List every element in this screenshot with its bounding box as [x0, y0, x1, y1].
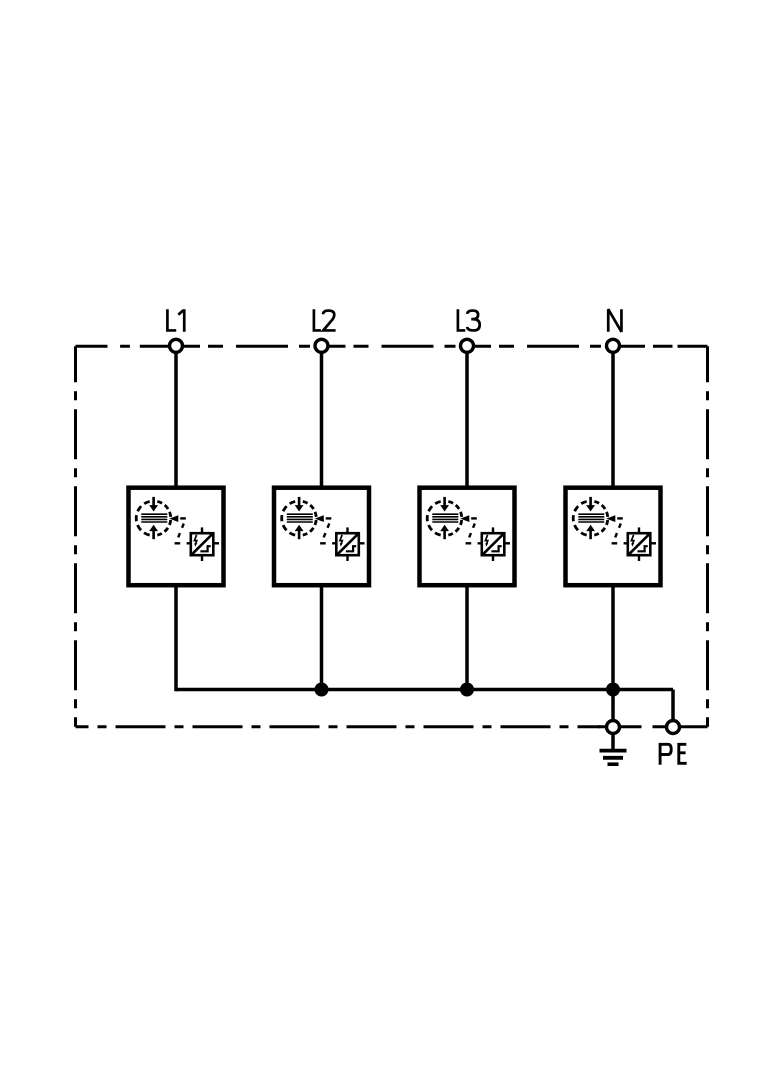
terminal L3 [461, 339, 474, 352]
varistor right pin tick [504, 542, 510, 544]
enclosure border bottom solid run PE terminal to corner [653, 725, 708, 728]
varistor top pin tick [492, 527, 494, 533]
varistor top pin tick [638, 527, 640, 533]
spark gap top arrow [440, 497, 449, 512]
spark gap electrode stack [141, 514, 167, 522]
spark gap dashed circle [136, 501, 171, 535]
varistor box [336, 533, 359, 555]
spark gap electrode stack [578, 514, 604, 522]
enclosure border bottom (dash-dot) [76, 725, 601, 728]
ground symbol [600, 735, 627, 764]
wire module 4 to PE bus [611, 585, 615, 691]
label L3 [458, 309, 480, 330]
PE bus wire [176, 688, 673, 692]
SPD module 4 on N [566, 346, 661, 691]
junction dot L3 bus [460, 683, 474, 697]
varistor surge arrow [340, 535, 343, 547]
wire PE bus down to PE terminal [671, 690, 675, 728]
spark gap bottom arrow [586, 525, 595, 539]
terminal N [607, 339, 620, 352]
dashed link from spark gap to varistor [177, 524, 184, 542]
varistor right pin tick [359, 542, 365, 544]
label PE [660, 744, 687, 764]
SPD module 3 on L3 [420, 346, 515, 691]
SPD module 1 on L1 [129, 346, 224, 691]
spark gap top arrow [149, 497, 158, 512]
module 1 box [129, 488, 224, 586]
wire L3 terminal to module 3 [465, 346, 469, 488]
label L2 [314, 309, 336, 330]
spark gap dashed circle [573, 501, 608, 535]
wire module 3 to PE bus [465, 585, 469, 691]
varistor box [628, 533, 651, 555]
wire L2 terminal to module 2 [320, 346, 324, 488]
wire N terminal to module 4 [611, 346, 615, 488]
wire module 1 to PE bus [174, 585, 178, 691]
spark gap side arrow [460, 515, 477, 522]
terminal earth (bottom) [607, 721, 620, 734]
varistor switching step [346, 546, 356, 551]
varistor bottom pin tick [492, 555, 494, 561]
dashed link from spark gap to varistor [468, 524, 475, 542]
junction dot N bus [606, 683, 620, 697]
spark gap bottom arrow [295, 525, 304, 539]
varistor diagonal [483, 534, 504, 555]
label L1 [167, 309, 184, 332]
varistor box [191, 533, 214, 555]
terminal PE [667, 721, 680, 734]
wire N junction down to earth terminal [611, 690, 615, 728]
spark gap bottom arrow [440, 525, 449, 539]
label N [608, 309, 621, 332]
wire L1 terminal to module 1 [174, 346, 178, 488]
varistor right pin tick [650, 542, 656, 544]
varistor right pin tick [213, 542, 219, 544]
varistor switching step [491, 546, 501, 551]
wire module 2 to PE bus [320, 585, 324, 691]
varistor bottom pin tick [201, 555, 203, 561]
varistor top pin tick [346, 527, 348, 533]
spark gap bottom arrow [149, 525, 158, 539]
dashed link from spark gap to varistor [614, 524, 621, 542]
varistor switching step [637, 546, 647, 551]
varistor bottom pin tick [346, 555, 348, 561]
spark gap electrode stack [432, 514, 458, 522]
SPD module 2 on L2 [274, 346, 369, 691]
enclosure border left (dash-dot) [74, 346, 77, 727]
varistor box [482, 533, 505, 555]
spark gap side arrow [606, 515, 623, 522]
spark gap dashed circle [282, 501, 317, 535]
varistor surge arrow [485, 535, 488, 547]
dashed link from spark gap to varistor [322, 524, 329, 542]
varistor diagonal [337, 534, 358, 555]
spark gap side arrow [315, 515, 332, 522]
spark gap side arrow [169, 515, 186, 522]
spark gap top arrow [586, 497, 595, 512]
varistor diagonal [629, 534, 650, 555]
varistor surge arrow [631, 535, 634, 547]
spark gap electrode stack [287, 514, 313, 522]
terminal L2 [315, 339, 328, 352]
spark gap dashed circle [427, 501, 462, 535]
varistor diagonal [192, 534, 213, 555]
varistor switching step [200, 546, 210, 551]
varistor bottom pin tick [638, 555, 640, 561]
module 3 box [420, 488, 515, 586]
terminal L1 [170, 339, 183, 352]
junction dot L2 bus [315, 683, 329, 697]
enclosure border top (dash-dot) [76, 345, 708, 348]
enclosure border bottom solid run between earth and PE terminals [598, 725, 642, 728]
varistor surge arrow [194, 535, 197, 547]
module 4 box [566, 488, 661, 586]
varistor top pin tick [201, 527, 203, 533]
spark gap top arrow [295, 497, 304, 512]
module 2 box [274, 488, 369, 586]
enclosure border right (dash-dot) [706, 346, 709, 727]
